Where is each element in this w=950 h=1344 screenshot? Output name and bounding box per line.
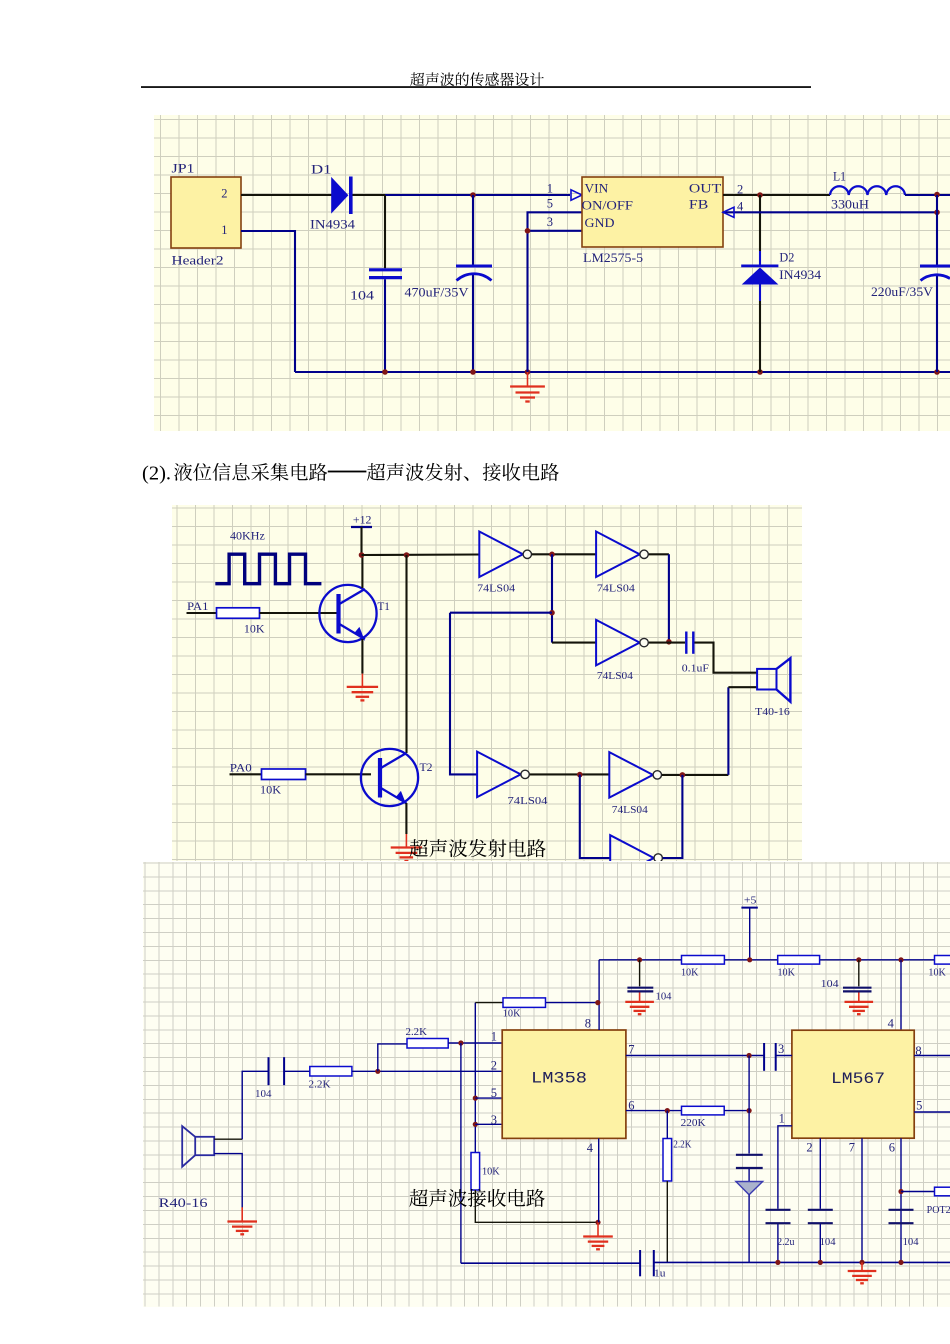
wire 2.2K down xyxy=(666,1111,668,1139)
wire inv2 out to cap branch xyxy=(648,553,668,555)
resistor 2.2K vertical xyxy=(663,1139,672,1182)
wire feedback net vertical xyxy=(474,1003,476,1153)
resistor 2.2K (input) xyxy=(309,1067,351,1077)
node rail x937 xyxy=(934,369,940,375)
node rail pin7 xyxy=(859,1260,864,1265)
inverter U2 74LS04 xyxy=(596,531,648,594)
wire pin6 to POT2 xyxy=(901,1191,935,1193)
capacitor 104 xyxy=(350,270,402,303)
wire JP1 pin1 down to rail xyxy=(241,231,295,372)
tone decoder U3 LM567 xyxy=(791,1030,913,1138)
wire ON/OFF + GND to rail xyxy=(528,212,583,372)
wire inv4 out xyxy=(529,773,609,775)
regulator U1 LM2575-5 xyxy=(582,177,724,265)
wire inv5 out to speaker bottom xyxy=(661,774,727,776)
wire D1 to VIN node xyxy=(353,194,386,196)
node LM567 pin4 top xyxy=(898,957,903,962)
node inv2/inv3 output join xyxy=(666,639,672,645)
wire pin6(LM358) to 220K xyxy=(625,1110,681,1112)
node OUT/D2 junction xyxy=(757,192,763,198)
node feed row2 xyxy=(549,610,555,616)
wire pin1 node down to bottom rail xyxy=(459,1043,461,1263)
arrow into FB pin 4 xyxy=(723,207,734,217)
ground under speaker xyxy=(241,1207,243,1221)
node 2.2K branch xyxy=(664,1108,669,1113)
inverter U4 74LS04 xyxy=(477,752,548,807)
resistor 10K rail B xyxy=(777,956,819,965)
wire R to T2 base xyxy=(305,773,370,775)
node 104A xyxy=(637,957,642,962)
wire R to T1 base xyxy=(259,612,336,614)
wire feed to row2 xyxy=(450,612,552,614)
node pin3net/110 xyxy=(746,1108,751,1113)
wire bias resistor to gnd node xyxy=(475,1190,598,1222)
wire 220K to pin3 net xyxy=(724,1110,749,1112)
trimmer POT2 (cut) xyxy=(934,1187,950,1196)
wire inv1out down to inv3 xyxy=(550,554,552,642)
resistor 10K feedback xyxy=(503,998,546,1008)
node 104B xyxy=(856,957,861,962)
node inv1 output xyxy=(549,551,555,557)
capacitor coupling (pin3) xyxy=(764,1043,776,1071)
inverter U5 74LS04 xyxy=(609,752,661,816)
wire pin5 stub xyxy=(475,1097,502,1099)
wire cap104 branch xyxy=(384,195,386,268)
ground 104A xyxy=(638,993,640,1002)
ground T1 xyxy=(361,674,363,687)
wire pin3 stub xyxy=(475,1123,502,1125)
node input junction xyxy=(375,1069,380,1074)
capacitor 104 (pin4 decouple) xyxy=(820,960,871,992)
ground LM358 pin4 xyxy=(597,1222,599,1236)
opamp U2 LM358 xyxy=(502,1030,626,1138)
wire LM567 pin5 xyxy=(914,1111,950,1113)
wire top rail to inv1 xyxy=(361,553,479,556)
node pin3 xyxy=(472,1122,477,1127)
wire pin3 net vertical xyxy=(748,1056,750,1154)
wire feedback top xyxy=(475,1002,503,1004)
wire LM567 pin1 xyxy=(777,1126,791,1209)
node pin6/POT2 xyxy=(898,1189,903,1194)
wire +5 down xyxy=(748,908,750,960)
capacitor + diode detector xyxy=(735,1155,762,1263)
inverter U1 74LS04 xyxy=(477,531,531,594)
inverter U3 74LS04 xyxy=(596,620,648,682)
capacitor 104 (pin6) xyxy=(888,1210,918,1248)
capacitor 2.2u xyxy=(765,1210,794,1248)
capacitor 0.1uF xyxy=(681,631,708,674)
wire cap to pin3 xyxy=(775,1055,791,1057)
speaker R40-16 xyxy=(158,1126,214,1210)
wire JP1 pin2 to D1 xyxy=(241,194,332,196)
ground symbol schematic1 xyxy=(527,372,529,386)
node T2 collector branch xyxy=(403,552,409,558)
wire FB line xyxy=(723,211,937,213)
wire T2 emitter to ground xyxy=(405,803,407,834)
capacitor 1u (series in rail) xyxy=(640,1250,666,1279)
wire inv3 out to cap xyxy=(648,642,684,644)
wire bottom rail right xyxy=(653,1261,950,1263)
speaker T40-16 xyxy=(754,658,789,718)
transistor T1 xyxy=(319,585,389,642)
wire inv6 input xyxy=(579,775,609,858)
node rail pin1 xyxy=(775,1260,780,1265)
wire bottom rail left xyxy=(460,1262,639,1264)
wire LM567 pin6 xyxy=(900,1138,902,1262)
wire PA1 to R xyxy=(186,612,216,614)
wire PA0 to R xyxy=(229,773,261,775)
ground T2 xyxy=(405,834,407,847)
wire inv1 out xyxy=(531,553,595,555)
wire FB node vertical xyxy=(936,195,938,212)
wire speaker top to cap104 xyxy=(214,1138,242,1140)
node: D1/C104/C470/VIN junction xyxy=(470,192,476,198)
diode D1 xyxy=(310,162,356,232)
capacitor 104 (series input) xyxy=(255,1057,284,1100)
wire pin4 vertical xyxy=(597,1138,599,1222)
transistor T2 xyxy=(360,749,432,806)
wire pin8 vertical xyxy=(598,960,600,1030)
power +12 symbol xyxy=(351,512,372,526)
wire cap to R2.2K xyxy=(284,1070,310,1072)
wire T1 emitter to ground xyxy=(361,639,363,674)
power +5 symbol xyxy=(741,895,757,908)
waveform 40KHz square wave xyxy=(215,554,321,583)
wire LM567 pin8 xyxy=(914,1055,950,1057)
diode D2 IN4934 xyxy=(741,250,821,285)
node inv4 output xyxy=(576,772,582,778)
node inv5 output xyxy=(679,772,685,778)
wire R to pin1 xyxy=(448,1042,502,1044)
node +5 xyxy=(747,957,752,962)
arrow into VIN pin 1 xyxy=(571,190,582,200)
resistor 10K (PA1) xyxy=(216,608,259,618)
node pin3/pin5 junction xyxy=(525,228,531,234)
node rail pin6 xyxy=(898,1260,903,1265)
node rail pin2 xyxy=(817,1260,822,1265)
wire speaker bottom to ground xyxy=(214,1154,242,1209)
node rail x527 xyxy=(525,369,531,375)
svg-text:(2).: (2). xyxy=(142,462,171,484)
wire up to R2.2K feedback xyxy=(377,1044,406,1071)
resistor 2.2K (to pin1) xyxy=(407,1039,448,1049)
resistor 10K (PA0) xyxy=(261,769,305,779)
resistor 10K rail C (cut) xyxy=(934,956,950,965)
capacitor 220uF/35V xyxy=(871,266,950,299)
inverter U6 74LS04 (cut) xyxy=(610,835,662,881)
wire OUT to L1 xyxy=(723,194,830,196)
resistor 10K rail A xyxy=(681,956,724,965)
wire L1 to edge xyxy=(905,194,950,196)
connector JP1 xyxy=(171,161,241,268)
wire ground rail schematic1 xyxy=(295,371,950,373)
wire T1 collector xyxy=(361,555,363,588)
wire 104 to rail xyxy=(819,1224,821,1262)
node pin3 net xyxy=(746,1053,751,1058)
capacitor 470uF/35V (polarized) xyxy=(405,266,493,300)
wire +12 to rail xyxy=(360,527,362,555)
node pin5 xyxy=(472,1096,477,1101)
wire D2 branch xyxy=(759,195,761,251)
wire T2 collector vertical xyxy=(405,555,407,753)
resistor 220K xyxy=(681,1106,724,1115)
node pin1 junction xyxy=(458,1040,463,1045)
wire LM567 pin2 xyxy=(819,1138,821,1209)
wire +5 rail xyxy=(599,959,950,961)
wire LM567 pin4 xyxy=(900,960,902,1030)
capacitor 104 (pin2) xyxy=(807,1210,835,1248)
ground 104B xyxy=(857,993,859,1002)
ground bottom rail xyxy=(861,1262,863,1270)
node rail x473 xyxy=(470,369,476,375)
wire LM567 pin7 xyxy=(861,1138,863,1262)
node pin4/ground xyxy=(595,1220,600,1225)
wire cap470 branch xyxy=(472,195,474,265)
wire 2.2u to rail xyxy=(776,1224,778,1262)
capacitor 104 (pin8 decouple) xyxy=(627,960,672,1003)
resistor 10K vertical (bias) xyxy=(471,1153,480,1191)
wire pin7(LM358) to cap xyxy=(625,1055,763,1057)
wire R to pin2 xyxy=(351,1070,501,1072)
wire cap to speaker top xyxy=(694,643,757,673)
node feedback/pin8 xyxy=(595,1000,600,1005)
node rail x760 xyxy=(757,369,763,375)
wire inv6 out xyxy=(662,775,682,858)
node rail x385 xyxy=(382,369,388,375)
inductor L1 330uH xyxy=(830,169,905,212)
node OUT/FB right junction xyxy=(934,192,940,198)
wire cap220 branch xyxy=(936,212,938,264)
node +12 junction xyxy=(358,552,364,558)
